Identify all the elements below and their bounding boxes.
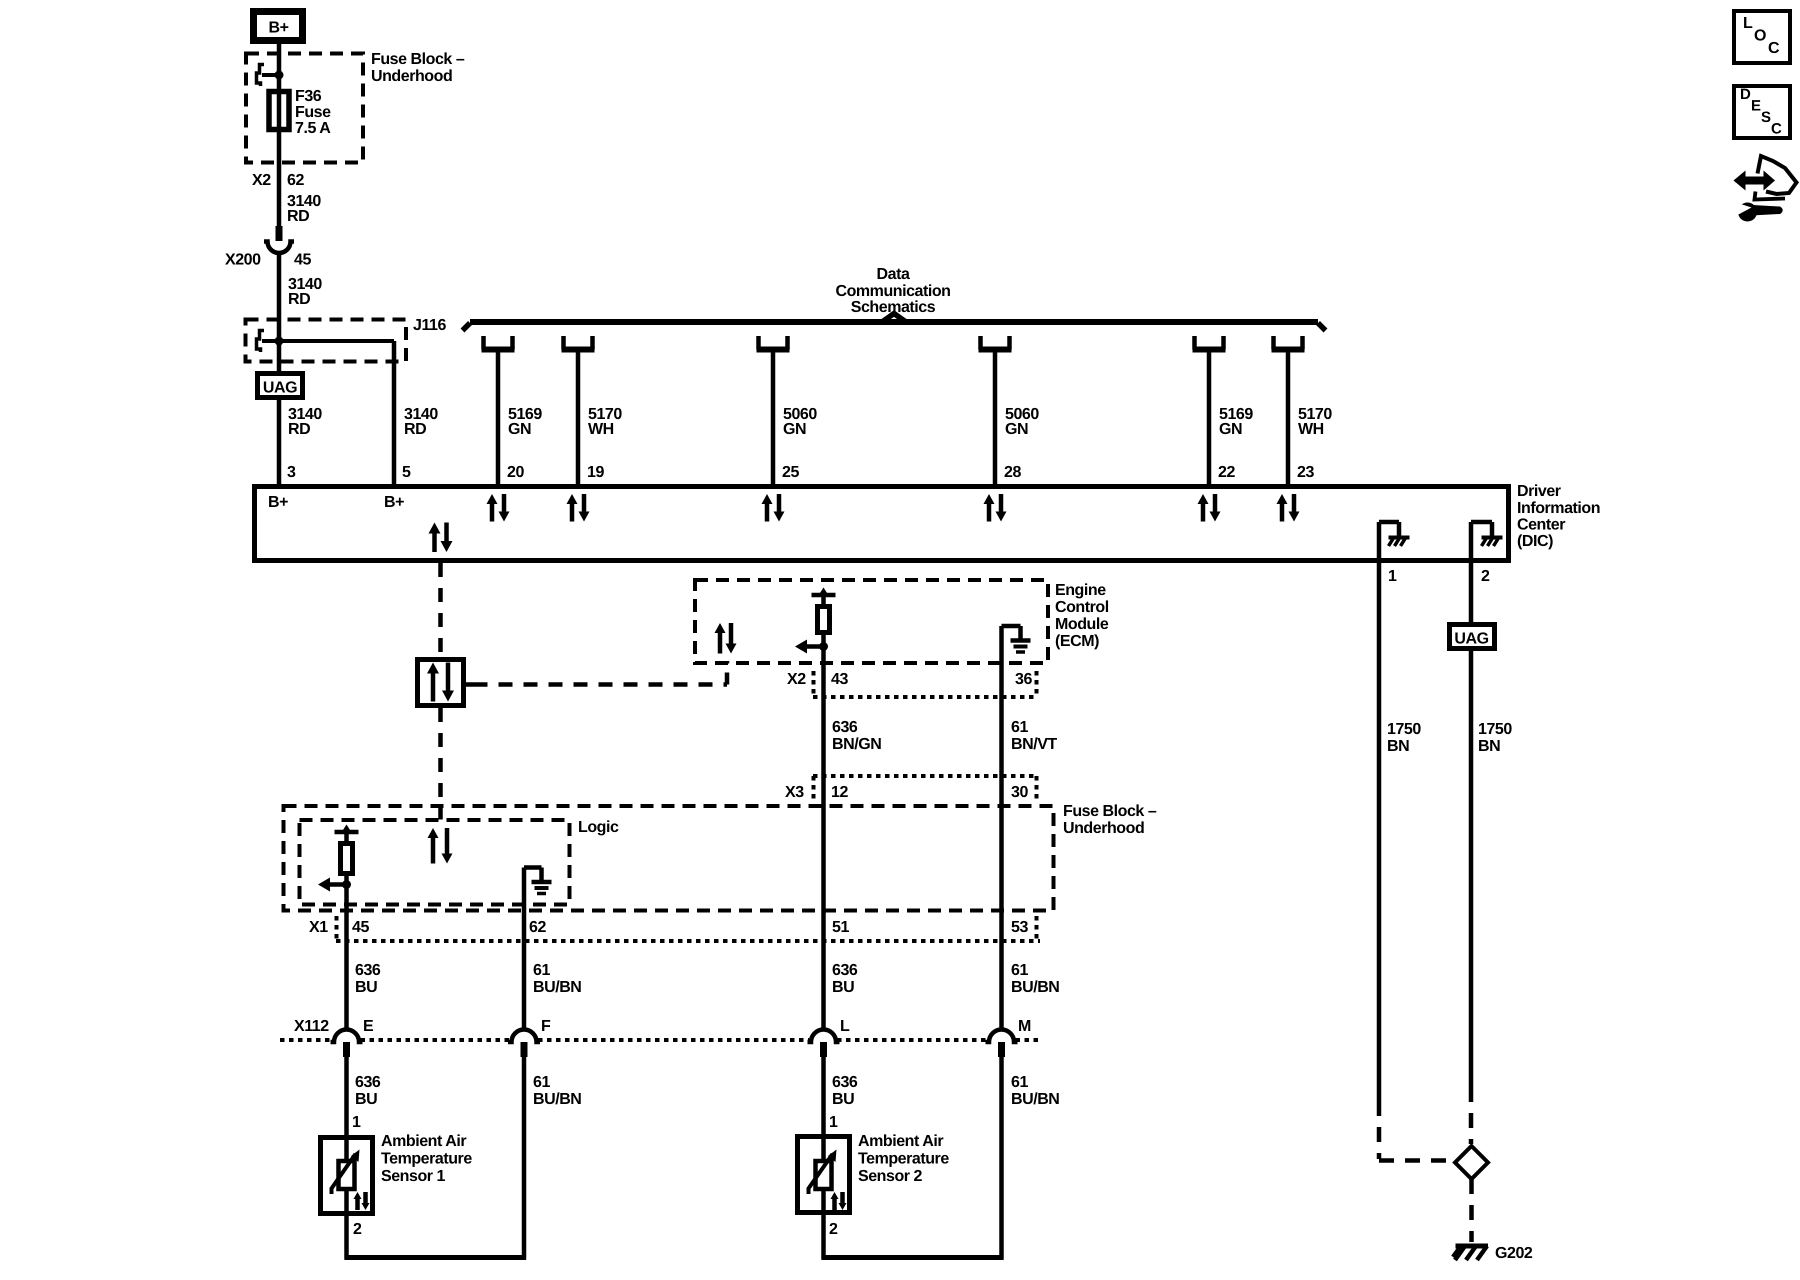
svg-text:G202: G202 <box>1495 1245 1533 1262</box>
bidirectional arrows pin 22 <box>1201 502 1206 522</box>
svg-text:1: 1 <box>829 1114 838 1131</box>
svg-text:D: D <box>1740 86 1751 103</box>
svg-text:BU/BN: BU/BN <box>533 1091 581 1108</box>
wire 3140 RD branch to pin 5 <box>392 341 397 486</box>
wire 636 BU to sensor 1 <box>344 1057 349 1159</box>
brace data communication schematics <box>470 319 1318 325</box>
wire serial data (dashed) from DIC <box>438 563 443 657</box>
svg-text:62: 62 <box>287 172 304 189</box>
svg-text:Communication: Communication <box>835 283 950 300</box>
svg-text:Center: Center <box>1517 517 1565 534</box>
ground symbol inside logic box <box>522 868 527 905</box>
off-page connector wire 5169 GN <box>1193 347 1226 353</box>
svg-text:RD: RD <box>288 291 310 308</box>
svg-text:F: F <box>541 1018 551 1035</box>
wire 636 BU to sensor 2 <box>821 1057 826 1159</box>
voltage supply with resistor inside ECM <box>812 593 836 598</box>
svg-text:UAG: UAG <box>263 380 297 397</box>
wire 61 BU/BN return sensor 2 <box>999 1057 1004 1260</box>
svg-text:GN: GN <box>783 421 806 438</box>
svg-text:43: 43 <box>831 671 848 688</box>
svg-text:Data: Data <box>877 266 910 283</box>
svg-text:GN: GN <box>1219 421 1242 438</box>
svg-text:30: 30 <box>1011 784 1028 801</box>
svg-text:Logic: Logic <box>578 819 619 836</box>
svg-text:51: 51 <box>832 919 849 936</box>
node B+ battery feed <box>254 12 303 41</box>
svg-text:X2: X2 <box>252 172 271 189</box>
svg-text:1750: 1750 <box>1478 721 1512 738</box>
svg-text:(ECM): (ECM) <box>1055 633 1099 650</box>
svg-text:22: 22 <box>1218 464 1235 481</box>
wire serial data to logic box (dashed) <box>438 708 443 804</box>
svg-text:636: 636 <box>832 1074 858 1091</box>
icon DESC button <box>1734 86 1790 138</box>
wire 3140 RD to splice J116 <box>277 253 282 374</box>
svg-text:20: 20 <box>507 464 524 481</box>
svg-text:61: 61 <box>1011 719 1028 736</box>
svg-text:45: 45 <box>294 252 311 269</box>
svg-text:Ambient Air: Ambient Air <box>858 1133 943 1150</box>
icon LOC button <box>1734 11 1790 63</box>
bidirectional arrows pin 28 <box>987 502 992 522</box>
fuse F36 7.5A <box>277 91 282 130</box>
svg-text:BU/BN: BU/BN <box>1011 1091 1059 1108</box>
svg-text:BU: BU <box>832 979 854 996</box>
svg-text:45: 45 <box>352 919 369 936</box>
svg-text:BU: BU <box>355 1091 377 1108</box>
svg-text:61: 61 <box>533 962 550 979</box>
inline connector X112 pin E <box>331 1030 363 1043</box>
wire 61 BN/VT <box>999 663 1004 1030</box>
svg-text:RD: RD <box>404 421 426 438</box>
svg-text:C: C <box>1771 121 1782 138</box>
svg-text:M: M <box>1018 1018 1031 1035</box>
svg-text:12: 12 <box>831 784 848 801</box>
ambient air temperature sensor 1 <box>321 1138 373 1214</box>
svg-text:BN: BN <box>1387 738 1409 755</box>
ground pin 2 inside DIC <box>1469 522 1474 559</box>
wire sensor 2 pin 2 loop <box>821 1191 826 1260</box>
inline connector X200 pin 45 <box>276 226 283 241</box>
wire serial data to ECM (dashed) <box>466 682 474 687</box>
inline connector X112 pin L <box>808 1030 840 1043</box>
svg-text:2: 2 <box>1481 568 1490 585</box>
svg-text:Driver: Driver <box>1517 483 1561 500</box>
svg-text:636: 636 <box>355 962 381 979</box>
splice J116 junction <box>257 331 265 353</box>
svg-text:Module: Module <box>1055 616 1109 633</box>
svg-text:BU/BN: BU/BN <box>533 979 581 996</box>
svg-text:O: O <box>1754 28 1766 45</box>
svg-text:Fuse: Fuse <box>295 104 331 121</box>
wire 636 BU upper <box>344 885 349 1030</box>
svg-text:Fuse Block –: Fuse Block – <box>371 51 465 68</box>
svg-text:X1: X1 <box>309 919 328 936</box>
svg-text:Sensor 2: Sensor 2 <box>858 1168 923 1185</box>
callout UAG (right) <box>1450 625 1495 649</box>
svg-text:F36: F36 <box>295 88 322 105</box>
svg-text:GN: GN <box>1005 421 1028 438</box>
off-page connector wire 5060 GN <box>757 347 790 353</box>
splice J116 box <box>246 320 407 362</box>
bidirectional arrows pin 20 <box>490 502 495 522</box>
svg-text:62: 62 <box>529 919 546 936</box>
wire 3140 RD to DIC pin 3 <box>277 373 282 486</box>
svg-text:L: L <box>1743 15 1753 32</box>
svg-text:BN: BN <box>1478 738 1500 755</box>
bidirectional arrow box (serial data) <box>418 660 464 706</box>
svg-text:BU/BN: BU/BN <box>1011 979 1059 996</box>
svg-text:5: 5 <box>402 464 411 481</box>
wire 61 BU/BN upper <box>522 904 527 1030</box>
svg-text:(DIC): (DIC) <box>1517 533 1553 550</box>
off-page connector wire 5060 GN <box>979 347 1012 353</box>
svg-text:25: 25 <box>782 464 799 481</box>
wire 61 BU/BN return sensor 1 <box>522 1057 527 1260</box>
svg-text:E: E <box>363 1018 374 1035</box>
svg-text:E: E <box>1751 98 1761 115</box>
splice diamond <box>1455 1146 1488 1179</box>
svg-text:1750: 1750 <box>1387 721 1421 738</box>
svg-text:2: 2 <box>353 1221 362 1238</box>
svg-text:BU: BU <box>832 1091 854 1108</box>
bidirectional arrows pin 25 <box>765 502 770 522</box>
svg-text:53: 53 <box>1011 919 1028 936</box>
svg-text:Information: Information <box>1517 500 1600 517</box>
svg-text:S: S <box>1761 109 1771 126</box>
svg-text:1: 1 <box>352 1114 361 1131</box>
logic box <box>300 820 570 905</box>
fuse block underhood box (top) <box>246 54 363 163</box>
svg-text:2: 2 <box>829 1221 838 1238</box>
svg-text:Temperature: Temperature <box>858 1151 949 1168</box>
wire sensor 1 pin 2 loop <box>344 1191 349 1260</box>
wire splice to ground G202 <box>1469 1179 1474 1242</box>
connector X3 row ECM to fuse block <box>813 774 1037 778</box>
svg-text:WH: WH <box>1298 421 1324 438</box>
svg-text:B+: B+ <box>384 494 404 511</box>
svg-text:636: 636 <box>832 962 858 979</box>
svg-text:61: 61 <box>1011 962 1028 979</box>
ground symbol inside ECM <box>999 626 1004 663</box>
bidirectional arrows pin 19 <box>570 502 575 522</box>
off-page connector wire 5169 GN <box>482 347 515 353</box>
svg-text:Fuse Block –: Fuse Block – <box>1063 803 1157 820</box>
inline connector X112 pin M <box>986 1030 1018 1043</box>
icon schematic navigation <box>1744 177 1765 185</box>
svg-text:Underhood: Underhood <box>1063 820 1144 837</box>
svg-text:3: 3 <box>287 464 296 481</box>
svg-text:BU: BU <box>355 979 377 996</box>
bidirectional arrows pin 23 <box>1280 502 1285 522</box>
ground pin 1 inside DIC <box>1377 522 1382 559</box>
svg-text:19: 19 <box>587 464 604 481</box>
svg-text:X200: X200 <box>225 252 261 269</box>
svg-text:X2: X2 <box>787 671 806 688</box>
inline connector X112 pin F <box>508 1030 540 1043</box>
terminal lead into fuse <box>257 65 265 87</box>
Engine Control Module (ECM) box <box>695 580 1048 663</box>
svg-text:C: C <box>1768 40 1780 57</box>
svg-text:Control: Control <box>1055 599 1109 616</box>
bidirectional arrows inside ECM <box>718 631 723 654</box>
svg-text:WH: WH <box>588 421 614 438</box>
ambient air temperature sensor 2 <box>798 1137 850 1213</box>
off-page connector wire 5170 WH <box>562 347 595 353</box>
fuse block underhood box (lower) <box>284 806 1054 911</box>
svg-text:B+: B+ <box>268 494 288 511</box>
svg-text:UAG: UAG <box>1454 631 1488 648</box>
svg-text:B+: B+ <box>269 20 289 37</box>
ground G202 <box>1456 1244 1489 1249</box>
svg-text:636: 636 <box>832 719 858 736</box>
svg-text:61: 61 <box>533 1074 550 1091</box>
svg-text:GN: GN <box>508 421 531 438</box>
voltage supply with resistor inside logic box <box>335 830 359 835</box>
svg-text:1: 1 <box>1388 568 1397 585</box>
bidirectional arrows inside logic box <box>431 836 436 864</box>
off-page connector wire 5170 WH <box>1272 347 1305 353</box>
svg-text:636: 636 <box>355 1074 381 1091</box>
svg-text:Temperature: Temperature <box>381 1151 472 1168</box>
svg-text:X112: X112 <box>294 1018 329 1035</box>
svg-text:J116: J116 <box>413 317 446 334</box>
svg-text:BN/VT: BN/VT <box>1011 736 1057 753</box>
svg-text:Underhood: Underhood <box>371 68 452 85</box>
svg-text:RD: RD <box>287 208 309 225</box>
svg-text:23: 23 <box>1297 464 1314 481</box>
svg-text:Engine: Engine <box>1055 582 1106 599</box>
svg-text:BN/GN: BN/GN <box>832 736 881 753</box>
bidirectional arrows center DIC <box>432 532 437 553</box>
svg-text:7.5 A: 7.5 A <box>295 120 331 137</box>
callout UAG (left) <box>258 374 303 398</box>
svg-text:36: 36 <box>1015 671 1032 688</box>
svg-text:61: 61 <box>1011 1074 1028 1091</box>
wire fuse to connector X2 pin 62 <box>277 130 282 226</box>
svg-text:28: 28 <box>1004 464 1021 481</box>
Driver Information Center (DIC) box <box>255 487 1509 561</box>
svg-text:Ambient Air: Ambient Air <box>381 1133 466 1150</box>
wire B+ to fuse block <box>277 44 282 91</box>
wire 636 BN/GN <box>821 647 826 1030</box>
svg-text:Sensor 1: Sensor 1 <box>381 1168 446 1185</box>
svg-text:L: L <box>840 1018 850 1035</box>
svg-text:X3: X3 <box>785 784 804 801</box>
svg-text:RD: RD <box>288 421 310 438</box>
